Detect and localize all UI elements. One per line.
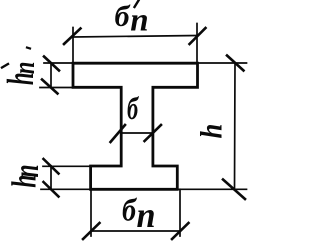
extension line b'_f right <box>196 24 198 64</box>
prime mark of b'_f (top) <box>135 1 139 8</box>
dimension line h (overall height, right) <box>234 63 237 189</box>
small ink speck <box>27 48 30 49</box>
svg-text:h: h <box>194 124 229 139</box>
tick b right <box>145 125 162 141</box>
extension line b'_f left <box>72 28 74 64</box>
bottom edge with extension lines (full width) <box>41 188 247 190</box>
tick h'_f bottom <box>42 80 58 94</box>
tick h_f bottom <box>44 182 59 197</box>
tick h top <box>227 56 244 71</box>
tick b_f left <box>83 223 100 239</box>
svg-text:п: п <box>6 164 46 177</box>
tick b left <box>111 125 126 142</box>
svg-text:п: п <box>137 195 156 235</box>
tick h bottom <box>223 180 245 200</box>
svg-text:п: п <box>8 62 41 75</box>
dimension line b (web thickness, middle) <box>121 132 153 134</box>
dimension line h'_f (top flange thickness, left) <box>50 63 52 88</box>
svg-text:б: б <box>122 192 138 228</box>
svg-text:п: п <box>130 3 148 39</box>
extension line h'_f top <box>44 62 73 64</box>
tick h_f top <box>44 159 59 174</box>
dimension line b'_f (top flange width) <box>73 36 197 38</box>
tick b'_f right <box>190 28 206 44</box>
tick b_f right <box>172 223 189 239</box>
tick h'_f top <box>44 57 59 71</box>
svg-text:б: б <box>115 0 131 33</box>
tick b'_f left <box>64 29 81 45</box>
prime mark of h'_f (left, rotated) <box>2 64 8 68</box>
extension line h top (flange top edge extended right) <box>198 62 247 64</box>
dimension line b_f (bottom flange width) <box>91 230 180 232</box>
dimension line h_f (bottom flange thickness, left) <box>50 166 52 190</box>
extension line b_f right <box>179 189 181 236</box>
I-beam cross-section outline <box>73 63 198 189</box>
extension line h'_f bottom <box>40 87 73 89</box>
extension line b_f left <box>90 189 92 236</box>
svg-text:б: б <box>127 90 140 126</box>
extension line h_f top <box>43 165 91 167</box>
